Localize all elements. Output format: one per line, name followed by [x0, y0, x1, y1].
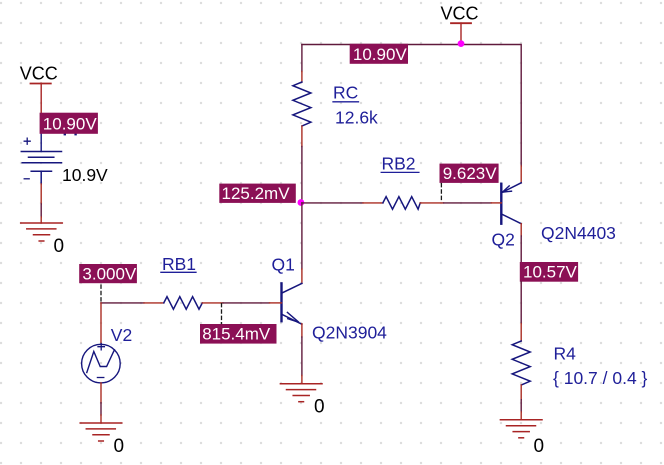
svg-text:10.57V: 10.57V: [523, 263, 578, 282]
pin: RB1 left: [144, 302, 164, 304]
pin: ground stem (R4): [520, 412, 522, 420]
svg-text:815.4mV: 815.4mV: [202, 325, 271, 344]
svg-text:Q2: Q2: [492, 230, 515, 250]
voltage label 10.90V (battery node): [40, 113, 98, 134]
svg-text:10.90V: 10.90V: [353, 45, 408, 64]
pin: RB2 right: [420, 202, 443, 204]
ref label RB1: [161, 254, 196, 274]
ref label Q2: [492, 230, 515, 250]
power symbol VCC (left): [31, 83, 51, 113]
value label { 10.7 / 0.4 }: [553, 368, 648, 388]
leader dash 3.000V: [100, 285, 102, 302]
resistor R4: [512, 341, 530, 385]
svg-text:0: 0: [114, 436, 125, 457]
svg-text:Q2N3904: Q2N3904: [312, 323, 387, 343]
svg-text:0: 0: [534, 436, 545, 457]
resistor RB1: [164, 297, 203, 310]
voltage label 10.90V (VCC rail): [350, 44, 408, 64]
wire: V2 to ground: [100, 403, 102, 415]
wire: battery to ground: [40, 204, 42, 217]
wire: label to R4: [520, 282, 522, 324]
svg-text:12.6k: 12.6k: [335, 108, 378, 128]
pin: Q2 collector: [520, 224, 522, 236]
value label 10.9V: [62, 165, 108, 185]
wire: R4 to ground: [520, 400, 522, 412]
transistor Q2 (PNP): [501, 183, 521, 224]
ground 0 (battery): [21, 223, 63, 241]
voltage label 125.2mV (Q1 collector node): [219, 184, 295, 203]
wire: top rail from RC top to right corner: [302, 45, 521, 167]
wire: VCC rail down to RC: [301, 45, 303, 72]
wire: RB2 to Q2 base: [444, 202, 492, 204]
ref label RB2: [381, 154, 419, 174]
svg-text:VCC: VCC: [20, 64, 58, 84]
svg-text:10.9V: 10.9V: [62, 165, 108, 185]
ground name 0 (V2): [114, 436, 125, 457]
ref label R4: [554, 344, 577, 364]
pin: ground stem (Q1): [301, 376, 303, 384]
svg-text:V2: V2: [111, 325, 132, 345]
voltage label 10.57V (Q2 collector): [520, 262, 578, 282]
wire: Q1 emitter to ground: [301, 337, 303, 376]
ground name 0 (R4): [534, 436, 545, 457]
ref label Q1: [272, 254, 295, 274]
ground name 0 (battery): [54, 236, 65, 257]
resistor RB2: [383, 197, 420, 210]
decor: tick marks under battery label: [64, 133, 77, 135]
wire: Q1 collector up to node: [301, 203, 303, 269]
part label Q2N4403: [541, 223, 616, 243]
pin: RC bottom: [301, 126, 303, 147]
net label VCC (left): [20, 64, 58, 84]
pin: Q1 emitter: [301, 324, 303, 337]
ref label RC: [333, 83, 359, 103]
svg-text:RC: RC: [333, 83, 358, 103]
svg-text:{ 10.7 / 0.4 }: { 10.7 / 0.4 }: [553, 368, 648, 388]
ground 0 (R4): [500, 420, 542, 438]
leader dash 815.4mV: [221, 304, 223, 324]
svg-text:3.000V: 3.000V: [82, 264, 137, 283]
pin: ground stem (battery): [40, 217, 42, 223]
wire: V2 node down (V2 plus pin): [100, 303, 102, 345]
ground 0 (Q1): [280, 384, 322, 402]
pin: V2 minus: [100, 383, 102, 403]
wire: node to RB2: [302, 202, 363, 204]
svg-text:10.90V: 10.90V: [43, 114, 98, 133]
junction at collector node 125.2mV: [298, 199, 305, 206]
part label Q2N3904: [312, 323, 387, 343]
pin: Q1 collector: [301, 269, 303, 283]
voltage label 9.623V (Q2 base): [440, 164, 499, 183]
svg-text:125.2mV: 125.2mV: [222, 184, 291, 203]
resistor RC: [293, 82, 311, 126]
ground name 0 (Q1): [314, 397, 325, 418]
pin: Q1 base: [270, 302, 282, 304]
pin: R4 bottom: [520, 385, 522, 400]
pin: Q2 emitter (from rail): [520, 166, 522, 183]
source V2 (VSIN): [82, 344, 121, 383]
pin: RB2 left: [363, 202, 383, 204]
svg-text:RB1: RB1: [162, 254, 196, 274]
transistor Q1 (NPN): [282, 283, 302, 324]
pin: ground stem (V2): [100, 415, 102, 423]
svg-text:Q1: Q1: [272, 254, 295, 274]
svg-text:0: 0: [314, 397, 325, 418]
svg-text:R4: R4: [554, 344, 577, 364]
wire: Q2 collector down: [520, 236, 522, 262]
wire: V2 node to RB1: [101, 302, 144, 304]
svg-text:RB2: RB2: [382, 154, 416, 174]
svg-text:Q2N4403: Q2N4403: [541, 223, 616, 243]
pin: R4 top: [520, 324, 522, 341]
leader dash 9.623V: [440, 184, 442, 203]
power symbol VCC (top): [451, 23, 471, 43]
ground 0 (V2): [80, 423, 122, 441]
wire: battery plus pin (below left VCC label box): [40, 134, 42, 152]
svg-text:0: 0: [54, 236, 65, 257]
pin: RB1 right: [202, 302, 223, 304]
pin: battery minus pin: [40, 184, 42, 204]
junction at VCC rail: [458, 40, 465, 47]
value label 12.6k: [335, 108, 378, 128]
svg-text:VCC: VCC: [441, 4, 479, 24]
net label VCC (top): [441, 4, 479, 24]
voltage label 815.4mV (Q1 base): [200, 324, 277, 344]
ref label V2: [111, 325, 132, 345]
wire: RC bottom to node: [301, 147, 303, 203]
svg-text:9.623V: 9.623V: [443, 164, 498, 183]
pin: RC top: [301, 72, 303, 83]
pin: Q2 base: [491, 202, 501, 204]
voltage label 3.000V (V2 node): [79, 264, 137, 283]
battery source V1 10.9V: [21, 138, 61, 184]
wire: RB1 to Q1 base: [223, 302, 270, 304]
